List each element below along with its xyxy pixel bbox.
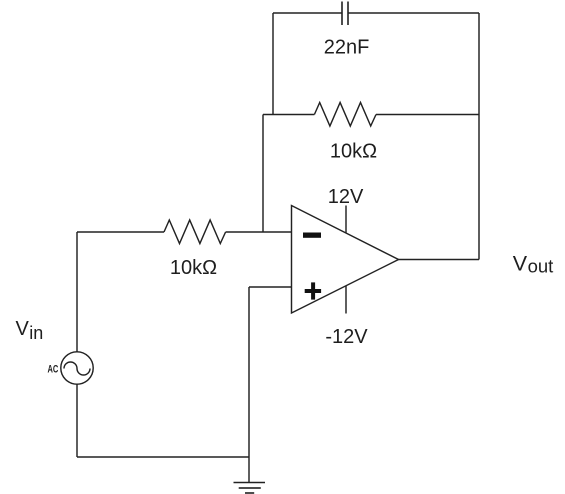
label: Vin (16, 318, 44, 343)
wire: inverting input lead to op-amp (226, 231, 292, 233)
wire: source bottom vertical (76, 384, 78, 457)
svg-text:10kΩ: 10kΩ (170, 257, 217, 279)
wire: output riser right vertical (478, 13, 480, 260)
source V1 AC circle (61, 352, 93, 384)
ground stem (248, 457, 250, 483)
op-amp non-inverting input plus symbol (305, 282, 321, 299)
svg-text:10kΩ: 10kΩ (330, 141, 377, 163)
svg-text:22nF: 22nF (324, 37, 370, 59)
capacitor C1 plates (342, 2, 348, 26)
svg-text:V: V (16, 318, 30, 340)
resistor R1 zigzag (164, 220, 226, 244)
wire: feedback resistor left lead (263, 114, 314, 116)
source V1 sine wave (64, 362, 90, 375)
wire: inverting node vertical (262, 115, 264, 233)
svg-text:out: out (528, 256, 554, 277)
wire: feedback resistor right lead (376, 114, 479, 116)
wire: capacitor branch left vertical (272, 13, 274, 115)
ground bar 3 (245, 492, 254, 494)
wire: source top vertical (76, 232, 78, 352)
wire: input resistor left lead (77, 231, 164, 233)
resistor R2 zigzag (314, 103, 376, 127)
label: Vout (513, 252, 554, 277)
wire: top feedback branch, right segment (348, 12, 479, 14)
svg-text:12V: 12V (328, 186, 364, 208)
op-amp U1 triangle (292, 206, 399, 314)
op-amp positive supply pin 12V (345, 206, 347, 233)
wire: bottom return horizontal (77, 456, 249, 458)
svg-text:AC: AC (48, 363, 59, 375)
op-amp inverting input minus symbol (303, 233, 321, 238)
ground bar 2 (239, 487, 261, 489)
wire: output horizontal (399, 259, 480, 261)
op-amp negative supply pin -12V (345, 286, 347, 314)
svg-text:V: V (513, 252, 528, 276)
wire: non-inverting input horizontal (249, 286, 292, 288)
ground bar 1 (234, 482, 266, 484)
wire: non-inverting branch vertical (248, 287, 250, 457)
svg-text:-12V: -12V (325, 326, 368, 348)
svg-text:in: in (29, 323, 43, 343)
wire: top feedback branch, left segment (273, 12, 342, 14)
